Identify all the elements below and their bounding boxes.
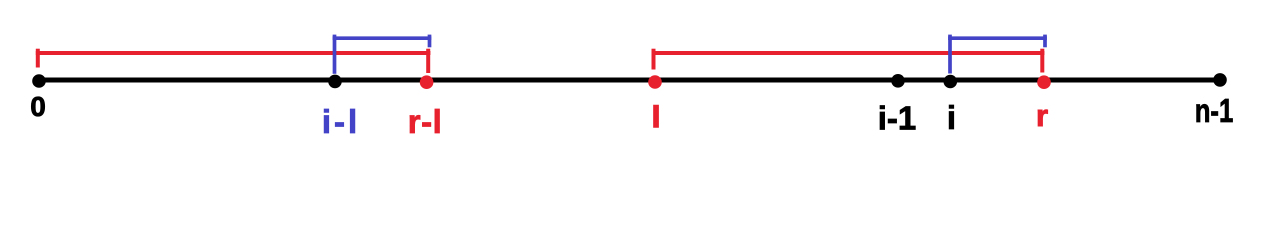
node n-1	[1213, 73, 1227, 87]
red bracket right leg at r	[1040, 49, 1044, 73]
svg-text:n-1: n-1	[1195, 93, 1234, 130]
svg-text:0: 0	[30, 91, 46, 122]
red bracket right leg at r-l	[426, 49, 430, 73]
blue interval bracket [i, +] : horizontal	[948, 36, 1047, 40]
blue bracket left leg at i-l	[333, 35, 337, 74]
svg-text:l: l	[652, 101, 660, 134]
node l	[648, 75, 662, 89]
number line	[39, 78, 1220, 83]
red interval bracket [0, r-l] : horizontal	[36, 51, 431, 55]
red bracket left leg at l	[652, 49, 656, 70]
svg-text:r-l: r-l	[408, 103, 443, 140]
svg-text:i-l: i-l	[322, 103, 360, 140]
blue interval bracket [i-l, +] : horizontal	[333, 36, 432, 40]
svg-text:r: r	[1036, 98, 1048, 133]
red interval bracket [l, r] : horizontal	[652, 51, 1045, 55]
node i-l	[328, 75, 342, 89]
node r-l	[420, 75, 434, 89]
blue bracket left leg at i	[948, 35, 952, 74]
svg-text:i: i	[947, 99, 956, 136]
node r	[1037, 75, 1051, 89]
red bracket left leg at 0	[36, 49, 40, 68]
blue bracket right leg	[1043, 35, 1047, 48]
node 0	[32, 74, 46, 88]
node i	[944, 75, 958, 89]
blue bracket right leg	[428, 35, 432, 48]
node i-1	[891, 74, 905, 88]
svg-text:i-1: i-1	[878, 100, 917, 137]
